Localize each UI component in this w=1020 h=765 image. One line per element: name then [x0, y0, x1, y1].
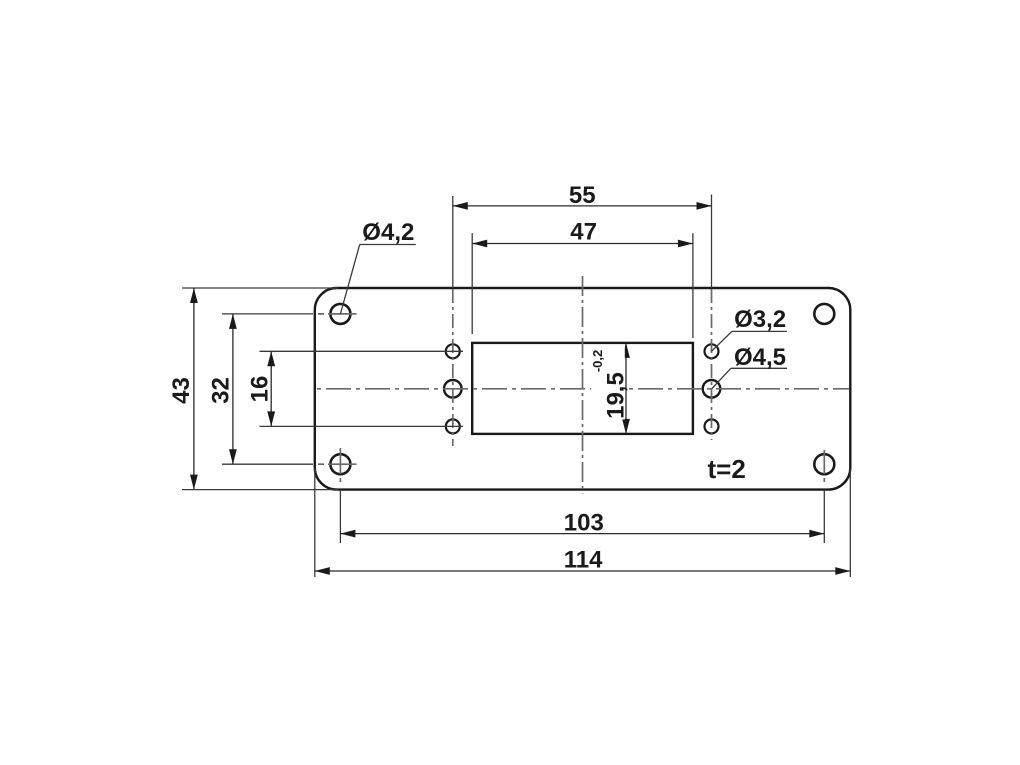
arrow 103 right: [809, 530, 824, 538]
right hole column centerline: [711, 289, 713, 440]
small hole left-middle: [444, 380, 462, 398]
dimension line 16: [270, 351, 272, 426]
extension line 55 left: [452, 196, 454, 288]
svg-text:103: 103: [564, 510, 604, 537]
small hole right-middle: [703, 380, 721, 398]
dimension line 32: [232, 314, 234, 464]
extension line 114 right: [849, 468, 851, 577]
horizontal centerline: [317, 388, 849, 390]
extension line 103 right: [823, 490, 825, 543]
arrow 43 bottom: [190, 475, 198, 490]
plate outline: [315, 288, 851, 490]
extension line 114 left: [314, 468, 316, 577]
extension line 43 top: [182, 287, 338, 289]
extension line 32 bottom: [222, 463, 313, 465]
svg-text:47: 47: [570, 219, 597, 246]
rectangular cutout: [472, 343, 693, 434]
corner hole top-right: [814, 304, 834, 324]
arrow 19.5 bottom: [622, 419, 630, 434]
vertical centerline: [582, 276, 584, 494]
leader O4,2 diagonal: [340, 245, 359, 314]
svg-text:Ø4,2: Ø4,2: [362, 219, 414, 246]
dimension line 103: [340, 533, 824, 535]
dimension line 114: [315, 570, 851, 572]
svg-text:55: 55: [569, 182, 596, 209]
label 19,5 -0,2 halo: [591, 345, 625, 420]
leader O4,2 underline: [360, 244, 416, 246]
arrow 32 bottom: [229, 449, 237, 464]
bottom-right hole centerline vertical: [823, 450, 825, 484]
dimension line 55: [453, 205, 712, 207]
leader O4,5 underline: [731, 367, 787, 369]
extension line 43 bottom: [182, 489, 338, 491]
extension line 16 top: [260, 350, 464, 352]
top-left hole centerline horizontal: [318, 313, 357, 315]
corner hole bottom-right: [814, 454, 834, 474]
extension line 16 bottom: [260, 425, 464, 427]
arrow 19.5 top: [622, 343, 630, 358]
leader O4,5 diagonal: [712, 368, 731, 389]
corner hole top-left: [330, 304, 350, 324]
bottom-left hole centerline horizontal: [318, 463, 357, 465]
small hole right-bottom: [705, 419, 719, 433]
arrow 114 left: [315, 567, 330, 575]
arrow 47 left: [472, 240, 487, 248]
extension line 47 right: [692, 233, 694, 338]
svg-text:43: 43: [168, 377, 195, 404]
dimension line 43: [193, 288, 195, 490]
arrow 16 bottom: [267, 411, 275, 426]
small hole left-bottom: [446, 419, 460, 433]
small hole left-top: [446, 344, 460, 358]
arrow 43 top: [190, 288, 198, 303]
small hole right-top: [705, 344, 719, 358]
svg-text:16: 16: [247, 376, 274, 403]
arrow 55 left: [453, 202, 468, 210]
svg-text:Ø3,2: Ø3,2: [734, 306, 786, 333]
dimension line 47: [472, 243, 693, 245]
leader O3,2 underline: [732, 330, 787, 332]
arrow 114 right: [835, 567, 850, 575]
extension line 55 right: [711, 195, 713, 289]
leader O3,2 diagonal: [712, 331, 732, 351]
svg-text:Ø4,5: Ø4,5: [734, 344, 786, 371]
arrow 16 top: [267, 351, 275, 366]
arrow 32 top: [229, 314, 237, 329]
bottom-left hole centerline vertical: [339, 448, 341, 484]
svg-text:114: 114: [564, 547, 603, 574]
left hole column centerline: [452, 289, 454, 446]
svg-text:32: 32: [208, 377, 235, 404]
corner hole bottom-left: [330, 454, 350, 474]
extension line 47 left: [471, 233, 473, 334]
extension line 103 left: [339, 490, 341, 543]
dimension line 19.5: [625, 343, 627, 434]
arrow 55 right: [697, 202, 712, 210]
svg-text:t=2: t=2: [708, 454, 746, 484]
arrow 103 left: [340, 530, 355, 538]
arrow 47 right: [678, 240, 693, 248]
extension line 32 top: [222, 313, 313, 315]
